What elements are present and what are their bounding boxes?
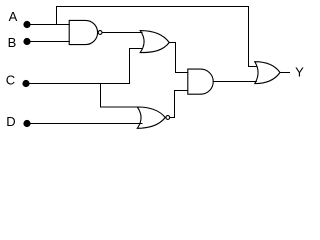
svg-text:A: A xyxy=(9,9,18,24)
svg-text:D: D xyxy=(6,114,15,129)
svg-text:B: B xyxy=(8,35,17,50)
svg-text:Y: Y xyxy=(295,65,304,80)
svg-text:C: C xyxy=(6,72,15,87)
